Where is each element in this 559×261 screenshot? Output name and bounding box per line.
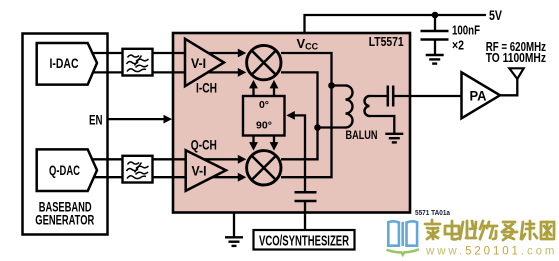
arrow V-I to mixer M1 bottom — [238, 68, 247, 77]
arrow LO up into mixer M1 left — [249, 80, 258, 89]
svg-text:www.520101.com: www.520101.com — [425, 245, 557, 257]
svg-text:V-I: V-I — [191, 56, 206, 71]
mixer M2 (Q) — [247, 151, 281, 185]
wire I+ from I-DAC through filter to V-I — [88, 52, 241, 54]
svg-text:100nF: 100nF — [452, 24, 480, 38]
wire 100nF cap stem top — [434, 15, 436, 31]
wire phase to mixer M2 feeds — [252, 136, 254, 146]
amplifier V-I I-channel — [185, 39, 224, 86]
wire VCC pin up and 5V rail — [305, 15, 487, 33]
amplifier V-I Q-channel — [186, 150, 226, 191]
svg-text:Q-DAC: Q-DAC — [49, 162, 80, 178]
wire I- from I-DAC through filter to V-I — [88, 71, 241, 73]
watermark book base swoosh — [387, 249, 420, 255]
wire upper mixer out to balun top, down to lower mixer out — [281, 53, 332, 177]
svg-text:VCO/SYNTHESIZER: VCO/SYNTHESIZER — [259, 233, 349, 249]
arrow EN into chip — [164, 115, 173, 124]
wire balun secondary top to dc block cap — [369, 95, 387, 97]
char 2 — [445, 221, 459, 239]
watermark book icon — [388, 221, 417, 246]
capacitor LO dc block — [295, 192, 317, 201]
ground for balun secondary — [385, 134, 403, 143]
VCO/SYNTHESIZER box — [254, 230, 355, 250]
I-DAC block — [37, 43, 97, 85]
mixer M1 (I) — [247, 45, 281, 79]
capacitor RF dc block — [388, 86, 393, 107]
Q-DAC block — [37, 149, 97, 191]
arrow LO down into mixer M2 right — [270, 142, 279, 151]
svg-text:5571 TA01a: 5571 TA01a — [415, 208, 451, 217]
svg-text:PA: PA — [470, 89, 487, 104]
char 3 — [460, 221, 476, 239]
antenna — [509, 68, 523, 79]
wire balun secondary bottom to ground — [369, 116, 394, 134]
svg-text:90°: 90° — [256, 120, 272, 132]
op chip LT5571 body — [173, 33, 410, 213]
capacitor 100nF — [421, 31, 449, 40]
watermark chinese characters (stylized strokes) — [425, 220, 554, 240]
svg-text:Q-CH: Q-CH — [191, 137, 217, 152]
ground for 100nF — [426, 55, 444, 64]
arrow V-I to mixer M2 bottom — [238, 173, 247, 182]
wire RF output from cap to PA — [394, 95, 462, 97]
balun secondary coil — [365, 96, 370, 116]
arrow V-I to mixer M1 top — [238, 49, 247, 58]
svg-text:0°: 0° — [259, 99, 269, 111]
wire EN to chip — [108, 118, 166, 120]
char 5 — [502, 222, 517, 240]
svg-text:BALUN: BALUN — [346, 128, 378, 142]
arrow LO into phase shifter — [286, 111, 295, 120]
node balun top junction — [328, 82, 335, 89]
char 7 — [541, 222, 554, 239]
wire Q+ from Q-DAC through filter to V-I — [88, 158, 241, 160]
balun primary coil — [346, 86, 353, 128]
filter F2 (Q channel lowpass) — [123, 156, 153, 183]
wire 100nF cap stem bottom to ground — [434, 40, 436, 56]
amplifier PA — [462, 72, 501, 118]
wire PA output to antenna — [499, 78, 517, 95]
arrows — [164, 49, 295, 182]
arrow LO up into mixer M1 right — [270, 80, 279, 89]
svg-text:I-CH: I-CH — [196, 80, 217, 95]
svg-text:GENERATOR: GENERATOR — [35, 213, 94, 228]
node balun bottom junction — [314, 124, 321, 131]
svg-text:LT5571: LT5571 — [369, 35, 404, 49]
arrow LO down into mixer M2 left — [249, 142, 258, 151]
ground chip exposed pad — [225, 237, 243, 246]
filter F1 (I channel lowpass) — [123, 49, 153, 76]
wire balun primary top stub — [332, 84, 346, 86]
svg-text:TO 1100MHz: TO 1100MHz — [486, 51, 546, 65]
wire phase to mixer M1 feeds — [254, 86, 275, 145]
baseband generator box — [23, 34, 108, 235]
node VCC 5V junction — [432, 12, 439, 19]
svg-text:EN: EN — [89, 112, 103, 128]
wire Q- from Q-DAC through filter to V-I — [88, 176, 241, 178]
char 6 — [521, 221, 537, 239]
phase shifter 0/90 box — [243, 96, 285, 136]
wire chip ground stub — [233, 213, 235, 237]
char 4 — [480, 221, 497, 239]
wire upper mixer out lower to balun bottom, down to lower mixer upper out — [281, 72, 318, 159]
svg-text:×2: ×2 — [452, 38, 464, 52]
svg-text:5V: 5V — [489, 8, 502, 23]
svg-text:I-DAC: I-DAC — [50, 55, 79, 71]
arrow V-I to mixer M2 top — [238, 155, 247, 164]
wire LO path from VCO box up through cap to phase shifter — [292, 115, 305, 230]
wire balun primary bottom stub — [318, 126, 346, 128]
svg-text:V-I: V-I — [192, 164, 207, 179]
char 1 — [425, 220, 440, 239]
